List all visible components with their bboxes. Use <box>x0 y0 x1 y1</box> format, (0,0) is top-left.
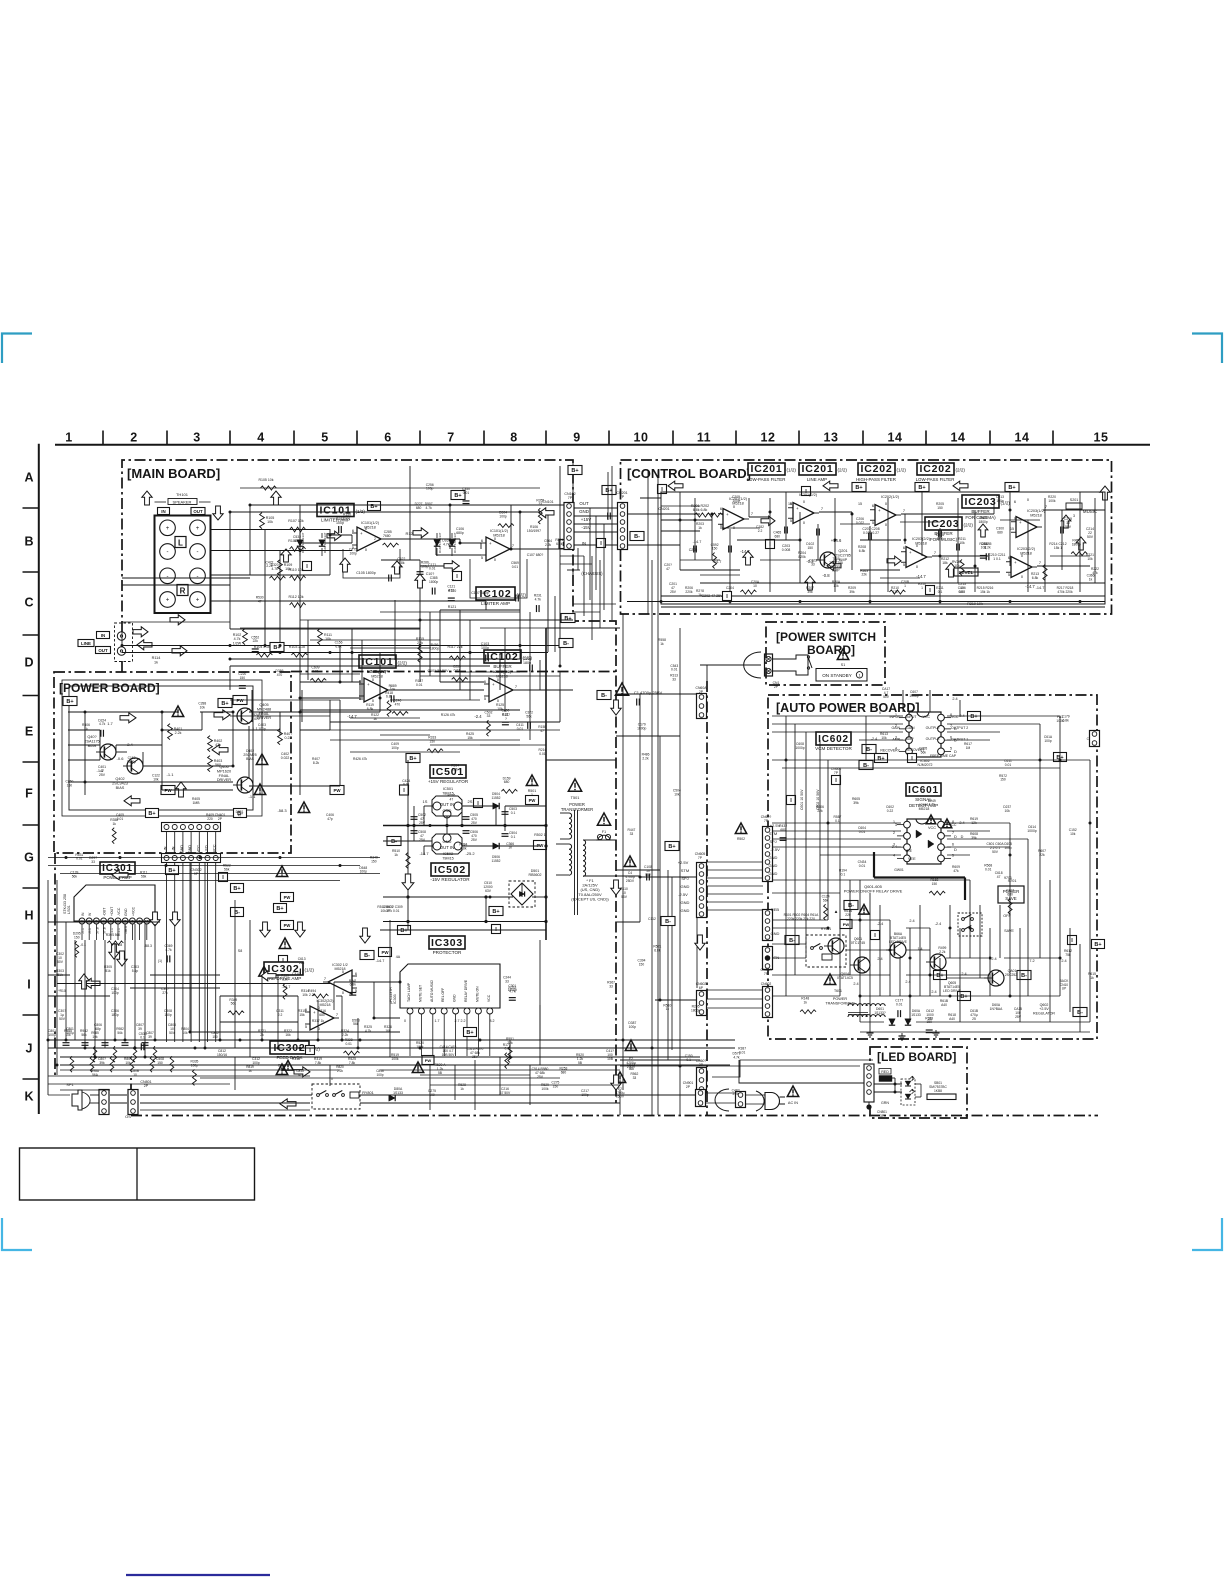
svg-text:7: 7 <box>515 684 517 689</box>
svg-text:D104 1SS133T: D104 1SS133T <box>453 532 457 553</box>
svg-text:AC IN: AC IN <box>788 1101 798 1105</box>
svg-text:OUTPUT: OUTPUT <box>926 737 941 741</box>
svg-text:470: 470 <box>449 588 455 592</box>
svg-text:4.7k: 4.7k <box>929 803 936 807</box>
svg-text:B: B <box>24 535 33 549</box>
svg-text:GND: GND <box>769 871 778 876</box>
svg-text:RELAY DRIVE: RELAY DRIVE <box>464 979 468 1002</box>
svg-text:56V: 56V <box>645 873 652 877</box>
svg-text:2.4: 2.4 <box>853 982 858 986</box>
svg-text:10: 10 <box>634 431 649 445</box>
svg-text:OUTPUT 1: OUTPUT 1 <box>951 737 968 741</box>
svg-text:-1.1: -1.1 <box>249 794 257 799</box>
svg-text:25V: 25V <box>419 821 426 825</box>
svg-text:680p: 680p <box>456 531 464 535</box>
svg-text:7: 7 <box>1045 504 1047 509</box>
svg-text:2.2k: 2.2k <box>342 1033 349 1037</box>
svg-text:100p: 100p <box>376 1073 383 1077</box>
svg-text:AMP: AMP <box>906 737 914 741</box>
svg-text:R117 22k: R117 22k <box>447 645 462 649</box>
svg-text:IC502: IC502 <box>434 864 466 876</box>
svg-text:-2.4: -2.4 <box>474 714 482 719</box>
svg-text:S201: S201 <box>1070 498 1078 502</box>
svg-text:6: 6 <box>484 679 486 684</box>
svg-text:GND: GND <box>453 994 457 1002</box>
svg-text:25V: 25V <box>1015 1015 1022 1019</box>
svg-text:7.8k: 7.8k <box>315 1061 322 1065</box>
svg-text:GND: GND <box>124 908 128 916</box>
svg-text:0.1: 0.1 <box>504 1047 509 1051</box>
svg-text:IC101(1/2): IC101(1/2) <box>361 521 380 525</box>
svg-text:100p: 100p <box>360 870 368 874</box>
svg-text:50V: 50V <box>1065 525 1072 529</box>
svg-text:GND: GND <box>771 931 780 936</box>
svg-text:0.01: 0.01 <box>539 752 546 756</box>
svg-text:VCC: VCC <box>923 715 931 719</box>
svg-text:MUTE SET: MUTE SET <box>418 985 422 1002</box>
svg-text:B-: B- <box>601 693 607 699</box>
svg-text:57.8: 57.8 <box>95 927 99 934</box>
svg-text:7P: 7P <box>698 856 703 860</box>
svg-text:R219 10k: R219 10k <box>967 602 983 606</box>
svg-text:1k: 1k <box>698 593 702 597</box>
svg-text:B-: B- <box>1021 973 1027 979</box>
svg-text:C310: C310 <box>292 972 300 976</box>
svg-text:3: 3 <box>895 823 897 827</box>
svg-text:T601: T601 <box>834 989 842 993</box>
svg-text:VCC: VCC <box>487 994 491 1002</box>
svg-text:33: 33 <box>91 860 95 864</box>
svg-text:S8: S8 <box>138 686 144 691</box>
svg-text:39: 39 <box>138 1027 142 1031</box>
svg-text:7: 7 <box>512 543 514 548</box>
svg-text:B+: B+ <box>1008 485 1015 491</box>
svg-text:150: 150 <box>639 962 645 966</box>
svg-text:K: K <box>24 1090 33 1104</box>
svg-text:1k: 1k <box>84 727 88 731</box>
svg-text:56k: 56k <box>353 1022 359 1026</box>
svg-text:2P: 2P <box>144 1084 149 1088</box>
svg-text:5: 5 <box>1014 516 1016 521</box>
svg-text:R107 10k: R107 10k <box>288 519 304 523</box>
svg-text:11: 11 <box>697 431 711 445</box>
svg-text:SPJ: SPJ <box>769 839 776 844</box>
svg-text:PW: PW <box>333 788 341 793</box>
svg-text:25V: 25V <box>471 838 478 842</box>
svg-text:C107 680p: C107 680p <box>471 591 489 595</box>
svg-text:6: 6 <box>950 735 952 739</box>
svg-text:(1/2): (1/2) <box>305 968 315 973</box>
svg-text:2.2k: 2.2k <box>545 543 552 547</box>
svg-text:2P: 2P <box>218 817 223 821</box>
svg-text:TH101: TH101 <box>176 492 189 497</box>
svg-text:7P: 7P <box>834 771 839 775</box>
svg-text:1000p: 1000p <box>1027 829 1037 833</box>
svg-text:150: 150 <box>1000 778 1006 782</box>
svg-text:IN: IN <box>81 912 85 916</box>
svg-text:47k: 47k <box>215 743 221 747</box>
svg-text:8: 8 <box>950 713 952 717</box>
svg-text:TACH LAMP: TACH LAMP <box>407 982 411 1002</box>
svg-text:1: 1 <box>893 820 895 824</box>
svg-text:10k: 10k <box>674 792 680 796</box>
svg-text:1 0.1: 1 0.1 <box>993 557 1001 561</box>
svg-text:B+: B+ <box>668 844 675 850</box>
svg-text:47: 47 <box>258 599 262 603</box>
svg-text:470k 220k: 470k 220k <box>1057 590 1073 594</box>
svg-text:IC202: IC202 <box>860 463 892 475</box>
svg-text:LINE AMP: LINE AMP <box>807 477 827 482</box>
svg-text:680: 680 <box>997 531 1003 535</box>
svg-text:0.01: 0.01 <box>512 565 519 569</box>
svg-text:7.8k: 7.8k <box>349 1061 356 1065</box>
svg-text:47 50V: 47 50V <box>500 1091 511 1095</box>
svg-text:S8: S8 <box>238 949 242 953</box>
svg-text:5: 5 <box>110 920 112 924</box>
svg-text:0.01: 0.01 <box>345 1042 352 1046</box>
svg-text:1k: 1k <box>394 853 398 857</box>
svg-text:10B 50V: 10B 50V <box>442 1053 455 1057</box>
svg-text:C107 680?: C107 680? <box>527 553 544 557</box>
svg-text:INPUT: INPUT <box>906 715 917 719</box>
svg-text:POWER ON/OFF RELAY DRIVE: POWER ON/OFF RELAY DRIVE <box>844 889 903 894</box>
svg-text:51k: 51k <box>105 969 111 973</box>
svg-text:680: 680 <box>416 506 422 510</box>
svg-text:B+: B+ <box>466 1030 473 1036</box>
svg-text:15k 1k: 15k 1k <box>980 590 990 594</box>
svg-text:11552: 11552 <box>492 796 501 800</box>
svg-text:1800p: 1800p <box>1072 543 1081 547</box>
svg-text:150: 150 <box>371 859 377 863</box>
svg-text:100p: 100p <box>732 499 740 503</box>
svg-text:7: 7 <box>952 831 954 835</box>
svg-text:1k: 1k <box>698 526 702 530</box>
svg-text:BIAS: BIAS <box>116 786 125 790</box>
svg-text:S1: S1 <box>841 663 845 667</box>
svg-text:2.4: 2.4 <box>931 990 936 994</box>
svg-text:7: 7 <box>390 684 392 689</box>
svg-text:6: 6 <box>1008 555 1010 560</box>
svg-text:PW: PW <box>284 923 291 928</box>
svg-text:(2/2): (2/2) <box>838 468 848 473</box>
svg-text:9: 9 <box>573 431 580 445</box>
svg-text:REB: REB <box>771 907 780 912</box>
svg-text:R114: R114 <box>152 656 161 660</box>
svg-text:1N?BAA: 1N?BAA <box>990 1007 1003 1011</box>
svg-text:S701: S701 <box>1008 879 1017 883</box>
svg-text:13: 13 <box>824 431 839 445</box>
svg-text:5: 5 <box>352 545 354 550</box>
svg-text:4A: 4A <box>396 955 401 959</box>
svg-text:1k: 1k <box>154 660 158 664</box>
svg-text:IC201: IC201 <box>801 463 833 475</box>
svg-text:(2/2): (2/2) <box>964 523 974 528</box>
svg-text:10k: 10k <box>881 736 887 740</box>
svg-text:0.01: 0.01 <box>454 668 461 672</box>
svg-text:(1): (1) <box>158 959 162 963</box>
svg-text:1k: 1k <box>804 1001 808 1005</box>
svg-text:R105 10k: R105 10k <box>259 478 274 482</box>
svg-text:7: 7 <box>903 508 905 513</box>
svg-text:0.1: 0.1 <box>140 1036 145 1040</box>
svg-text:[MAIN BOARD]: [MAIN BOARD] <box>127 466 220 481</box>
svg-text:0.008: 0.008 <box>782 548 791 552</box>
svg-text:D: D <box>24 656 33 670</box>
svg-text:56k: 56k <box>72 874 78 878</box>
svg-text:1S: 1S <box>423 799 428 804</box>
svg-text:0.1: 0.1 <box>938 590 943 594</box>
svg-text:Q402: Q402 <box>115 777 124 781</box>
svg-text:100p: 100p <box>1004 846 1012 850</box>
svg-text:R318: R318 <box>292 1057 300 1061</box>
svg-text:4.7k: 4.7k <box>99 722 106 726</box>
svg-text:-: - <box>197 550 199 556</box>
svg-text:50V: 50V <box>57 960 64 964</box>
svg-text:680: 680 <box>504 780 510 784</box>
svg-text:TRANSFORMER: TRANSFORMER <box>561 807 593 812</box>
svg-text:56k: 56k <box>526 714 532 718</box>
svg-text:0.01: 0.01 <box>416 683 423 687</box>
svg-text:C: C <box>24 596 33 610</box>
svg-text:7: 7 <box>1039 560 1041 565</box>
svg-text:GND: GND <box>681 884 690 889</box>
svg-text:0: 0 <box>879 711 881 715</box>
svg-text:OUTPUT: OUTPUT <box>926 726 941 730</box>
svg-text:GND: GND <box>769 855 778 860</box>
svg-text:22k: 22k <box>279 1068 285 1072</box>
svg-text:0.01: 0.01 <box>403 783 410 787</box>
svg-text:0.01: 0.01 <box>502 712 509 716</box>
svg-text:B+: B+ <box>855 485 862 491</box>
svg-text:2: 2 <box>374 537 376 541</box>
svg-text:AMP: AMP <box>832 569 840 573</box>
svg-text:B+: B+ <box>564 616 571 622</box>
svg-text:470: 470 <box>395 702 401 706</box>
svg-text:100p: 100p <box>350 551 358 555</box>
svg-text:15k: 15k <box>299 1013 305 1017</box>
svg-text:B+: B+ <box>1094 942 1101 948</box>
svg-text:BIAS: BIAS <box>246 757 254 761</box>
svg-text:4: 4 <box>893 854 895 858</box>
svg-text:GND: GND <box>681 908 690 913</box>
svg-text:14: 14 <box>1015 431 1030 445</box>
svg-text:VCM DETECTOR: VCM DETECTOR <box>815 746 852 751</box>
svg-text:PW: PW <box>236 698 244 703</box>
svg-text:100p: 100p <box>499 515 507 519</box>
svg-text:1.7: 1.7 <box>435 1019 440 1023</box>
svg-text:D: D <box>961 835 964 839</box>
svg-text:FREE TIME CAP: FREE TIME CAP <box>930 754 957 758</box>
svg-text:50V: 50V <box>883 695 890 699</box>
svg-text:BUFFER: BUFFER <box>493 664 512 669</box>
svg-text:10k: 10k <box>182 1031 188 1035</box>
svg-text:22k: 22k <box>817 809 823 813</box>
svg-text:M5218: M5218 <box>1030 513 1042 517</box>
svg-text:680: 680 <box>385 534 391 538</box>
svg-text:D: D <box>954 834 957 839</box>
svg-text:100p: 100p <box>258 727 266 731</box>
svg-text:0.01: 0.01 <box>76 857 83 861</box>
svg-text:AUTO MUSIC!: AUTO MUSIC! <box>430 980 434 1002</box>
svg-text:150/1997: 150/1997 <box>527 529 541 533</box>
svg-text:7.2: 7.2 <box>1029 959 1034 963</box>
svg-text:IN: IN <box>161 509 165 514</box>
svg-text:E: E <box>25 725 33 739</box>
svg-text:+: + <box>196 598 200 604</box>
svg-text:6: 6 <box>384 431 391 445</box>
svg-text:5: 5 <box>790 518 792 523</box>
svg-text:0.1: 0.1 <box>686 1058 691 1062</box>
svg-text:56k: 56k <box>141 875 147 879</box>
svg-text:B-: B- <box>391 839 397 845</box>
svg-text:14: 14 <box>951 431 966 445</box>
svg-text:5: 5 <box>872 520 874 525</box>
svg-text:-0.1: -0.1 <box>81 928 85 934</box>
svg-text:5: 5 <box>359 696 361 701</box>
svg-text:470: 470 <box>254 717 260 721</box>
svg-text:7: 7 <box>336 1012 338 1017</box>
svg-text:100p: 100p <box>191 1064 199 1068</box>
svg-text:OUT: OUT <box>579 501 589 506</box>
svg-text:6: 6 <box>117 920 119 924</box>
svg-text:ON STANDBY: ON STANDBY <box>822 673 852 678</box>
svg-text:G: G <box>24 851 34 865</box>
svg-text:4.7k: 4.7k <box>165 948 172 952</box>
svg-text:PROTECTOR: PROTECTOR <box>433 950 462 955</box>
svg-text:D: D <box>954 847 957 852</box>
svg-text:SPJ: SPJ <box>681 876 688 881</box>
svg-text:1800p: 1800p <box>127 760 136 764</box>
svg-text:-2.5V: -2.5V <box>678 892 688 897</box>
svg-text:+: + <box>489 541 492 546</box>
svg-text:1S133?: 1S133? <box>874 1011 886 1015</box>
svg-text:OS: OS <box>125 1114 131 1119</box>
svg-text:47: 47 <box>298 1073 302 1077</box>
svg-text:A: A <box>24 471 33 485</box>
svg-text:56k: 56k <box>231 1002 237 1006</box>
svg-text:3: 3 <box>895 735 897 739</box>
svg-text:50V: 50V <box>1087 535 1094 539</box>
svg-text:B+: B+ <box>233 886 240 892</box>
svg-text:150: 150 <box>157 1061 163 1065</box>
svg-text:1000p: 1000p <box>795 746 804 750</box>
svg-text:10k: 10k <box>92 1035 98 1039</box>
svg-text:2.4: 2.4 <box>1061 959 1066 963</box>
svg-text:680: 680 <box>775 534 781 538</box>
svg-text:1MB: 1MB <box>193 801 201 805</box>
svg-text:REL OFF: REL OFF <box>441 988 445 1002</box>
svg-text:IC203: IC203 <box>964 496 996 508</box>
svg-text:OUT: OUT <box>98 648 108 653</box>
svg-text:25V: 25V <box>99 773 106 777</box>
svg-text:B+: B+ <box>877 756 884 762</box>
svg-text:IC601: IC601 <box>908 785 939 796</box>
svg-text:100p: 100p <box>996 499 1004 503</box>
svg-text:0.1: 0.1 <box>841 872 846 876</box>
svg-text:1.7: 1.7 <box>107 721 113 726</box>
svg-text:8: 8 <box>952 820 954 824</box>
svg-text:150/16: 150/16 <box>217 1053 227 1057</box>
svg-text:2: 2 <box>130 431 137 445</box>
svg-text:12: 12 <box>761 431 776 445</box>
svg-text:STK433 258: STK433 258 <box>63 894 67 914</box>
svg-text:25: 25 <box>972 1017 976 1021</box>
svg-text:B-: B- <box>789 938 795 944</box>
svg-text:(2/2): (2/2) <box>398 661 408 666</box>
svg-text:47k: 47k <box>1092 571 1098 575</box>
svg-text:A40: A40 <box>949 1017 955 1021</box>
svg-text:-14.7: -14.7 <box>693 540 702 544</box>
svg-text:39k: 39k <box>99 1061 105 1065</box>
svg-text:+: + <box>360 531 363 536</box>
svg-text:680: 680 <box>319 1013 325 1017</box>
svg-text:+: + <box>313 1010 316 1015</box>
svg-text:SAVE: SAVE <box>1004 929 1014 933</box>
svg-text:D104 1SS133T: D104 1SS133T <box>438 532 442 553</box>
svg-text:0TAT14C5: 0TAT14C5 <box>837 976 853 980</box>
svg-text:+: + <box>878 508 881 513</box>
svg-text:REGULATOR: REGULATOR <box>1033 1011 1055 1015</box>
svg-text:2P: 2P <box>686 1085 691 1089</box>
svg-text:J: J <box>26 1042 33 1056</box>
svg-text:0.1: 0.1 <box>511 811 516 815</box>
svg-text:STM: STM <box>681 868 689 873</box>
svg-text:+OUT: +OUT <box>110 907 114 916</box>
svg-text:100k: 100k <box>541 1087 549 1091</box>
svg-text:10: 10 <box>753 584 757 588</box>
svg-text:47k: 47k <box>953 869 959 873</box>
svg-text:1: 1 <box>895 713 897 717</box>
svg-text:0.1: 0.1 <box>835 819 840 823</box>
svg-text:5: 5 <box>355 988 357 993</box>
svg-text:2P: 2P <box>699 690 704 694</box>
svg-text:56k: 56k <box>823 898 829 902</box>
svg-text:C202 47 25V: C202 47 25V <box>702 594 724 598</box>
svg-text:7: 7 <box>324 976 326 981</box>
svg-text:1: 1 <box>81 920 83 924</box>
svg-text:7: 7 <box>950 724 952 728</box>
svg-text:0.22: 0.22 <box>887 809 894 813</box>
svg-text:150: 150 <box>932 882 938 886</box>
svg-text:47: 47 <box>238 814 242 818</box>
svg-text:RY801: RY801 <box>362 1091 374 1095</box>
svg-text:7P: 7P <box>568 496 573 500</box>
svg-text:10k: 10k <box>833 584 839 588</box>
svg-text:4.7k: 4.7k <box>733 1056 740 1060</box>
svg-text:OUT: OUT <box>193 509 203 514</box>
svg-text:R502 1: R502 1 <box>534 833 546 837</box>
svg-text:470: 470 <box>277 673 283 677</box>
svg-text:2: 2 <box>895 724 897 728</box>
svg-text:POWER: POWER <box>833 997 848 1001</box>
svg-text:NJM2072: NJM2072 <box>918 763 933 767</box>
svg-text:-: - <box>197 574 199 580</box>
svg-text:PW: PW <box>284 895 291 900</box>
svg-text:PW: PW <box>164 788 172 793</box>
svg-text:7P: 7P <box>764 972 769 976</box>
svg-text:1: 1 <box>65 431 72 445</box>
svg-text:-OUT: -OUT <box>103 908 107 916</box>
svg-text:50V: 50V <box>169 1031 176 1035</box>
svg-text:LOW-PASS FILTER: LOW-PASS FILTER <box>916 477 955 482</box>
svg-text:-14.7: -14.7 <box>740 549 750 554</box>
svg-text:RB5602: RB5602 <box>529 873 542 877</box>
svg-text:100µ: 100µ <box>66 1031 73 1035</box>
svg-text:100p: 100p <box>426 487 434 491</box>
svg-text:1k: 1k <box>1090 976 1094 980</box>
svg-text:22k: 22k <box>299 961 305 965</box>
svg-text:+15V REGULATOR: +15V REGULATOR <box>428 779 469 784</box>
